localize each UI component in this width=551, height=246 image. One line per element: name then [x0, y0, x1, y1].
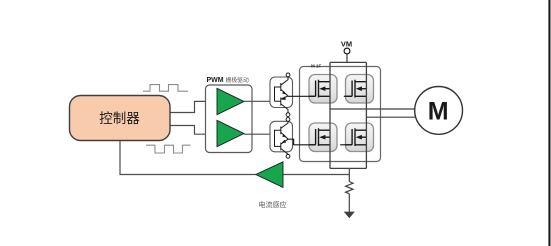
H-bridge box: [300, 67, 381, 162]
label PWM 栅极驱动: [207, 76, 249, 84]
wire controller to driver input 2: [170, 126, 217, 135]
transistor Q2 PNP (stage 1 low): [275, 96, 289, 113]
ground terminal stage 1: [286, 113, 290, 117]
totem-pole stage 1 box: [270, 77, 293, 108]
wire A2 output to totem-pole 2: [244, 133, 275, 135]
wire gate M2 stub: [344, 95, 352, 97]
ground: [345, 212, 354, 218]
totem-pole stage 2 box: [270, 121, 293, 152]
wire A1 output to totem-pole 1: [244, 100, 275, 102]
transistor Q1 NPN (stage 1 high): [275, 77, 289, 101]
buffer amplifier A2: [217, 120, 244, 146]
buffer amplifier A1: [217, 88, 244, 114]
wire left column drain-source: [329, 62, 331, 168]
mosfet M3 low-side left: [309, 123, 337, 152]
wire gate M4 stub: [340, 144, 352, 146]
supply terminal stage 1: [286, 73, 290, 77]
VM label: [341, 40, 352, 49]
svg-text:M 1F: M 1F: [311, 63, 322, 68]
label 电流感应: [259, 200, 287, 209]
wire phase B to motor: [366, 116, 415, 118]
svg-text:VM: VM: [341, 40, 352, 49]
wire gate M3 (totem-pole 2 output with jog): [288, 139, 316, 145]
transistor Q3 NPN (stage 2 high): [275, 121, 289, 139]
supply terminal stage 2: [286, 118, 290, 122]
controller block: [70, 96, 171, 141]
right border line: [548, 0, 550, 246]
wire top rail: [330, 61, 366, 63]
PWM waveform bottom: [146, 145, 191, 153]
mosfet M1 high-side left: [309, 75, 337, 104]
mosfet M4 low-side right: [346, 123, 374, 152]
svg-text:M: M: [428, 97, 449, 125]
wire controller to driver input 1: [170, 101, 217, 112]
wire bottom rail: [330, 167, 366, 169]
wire phase A to motor: [330, 108, 415, 110]
wire sense tap to amplifier: [283, 174, 349, 176]
motor M: [415, 87, 463, 135]
PWM waveform top: [143, 85, 188, 92]
VM terminal: [344, 48, 350, 54]
transistor Q4 PNP (stage 2 low): [275, 134, 289, 154]
svg-text:电流感应: 电流感应: [259, 200, 287, 209]
current sense amplifier A3: [256, 162, 283, 188]
svg-text:控制器: 控制器: [99, 111, 140, 126]
label on H-bridge top edge: [311, 63, 322, 68]
gate driver box: [206, 85, 253, 153]
wire gate M1 (totem-pole 1 output): [288, 95, 316, 97]
wire right column drain-source: [365, 62, 367, 168]
ground terminal stage 2: [286, 154, 290, 158]
wire VM drop: [346, 54, 348, 63]
wire resistor to ground: [348, 194, 350, 212]
wire bottom rail to sense resistor: [348, 168, 350, 181]
wire current-sense feedback to controller: [120, 141, 256, 175]
sense resistor R1: [346, 182, 353, 194]
mosfet M2 high-side right: [346, 75, 374, 104]
svg-text:PWM 栅极驱动: PWM 栅极驱动: [207, 76, 249, 84]
